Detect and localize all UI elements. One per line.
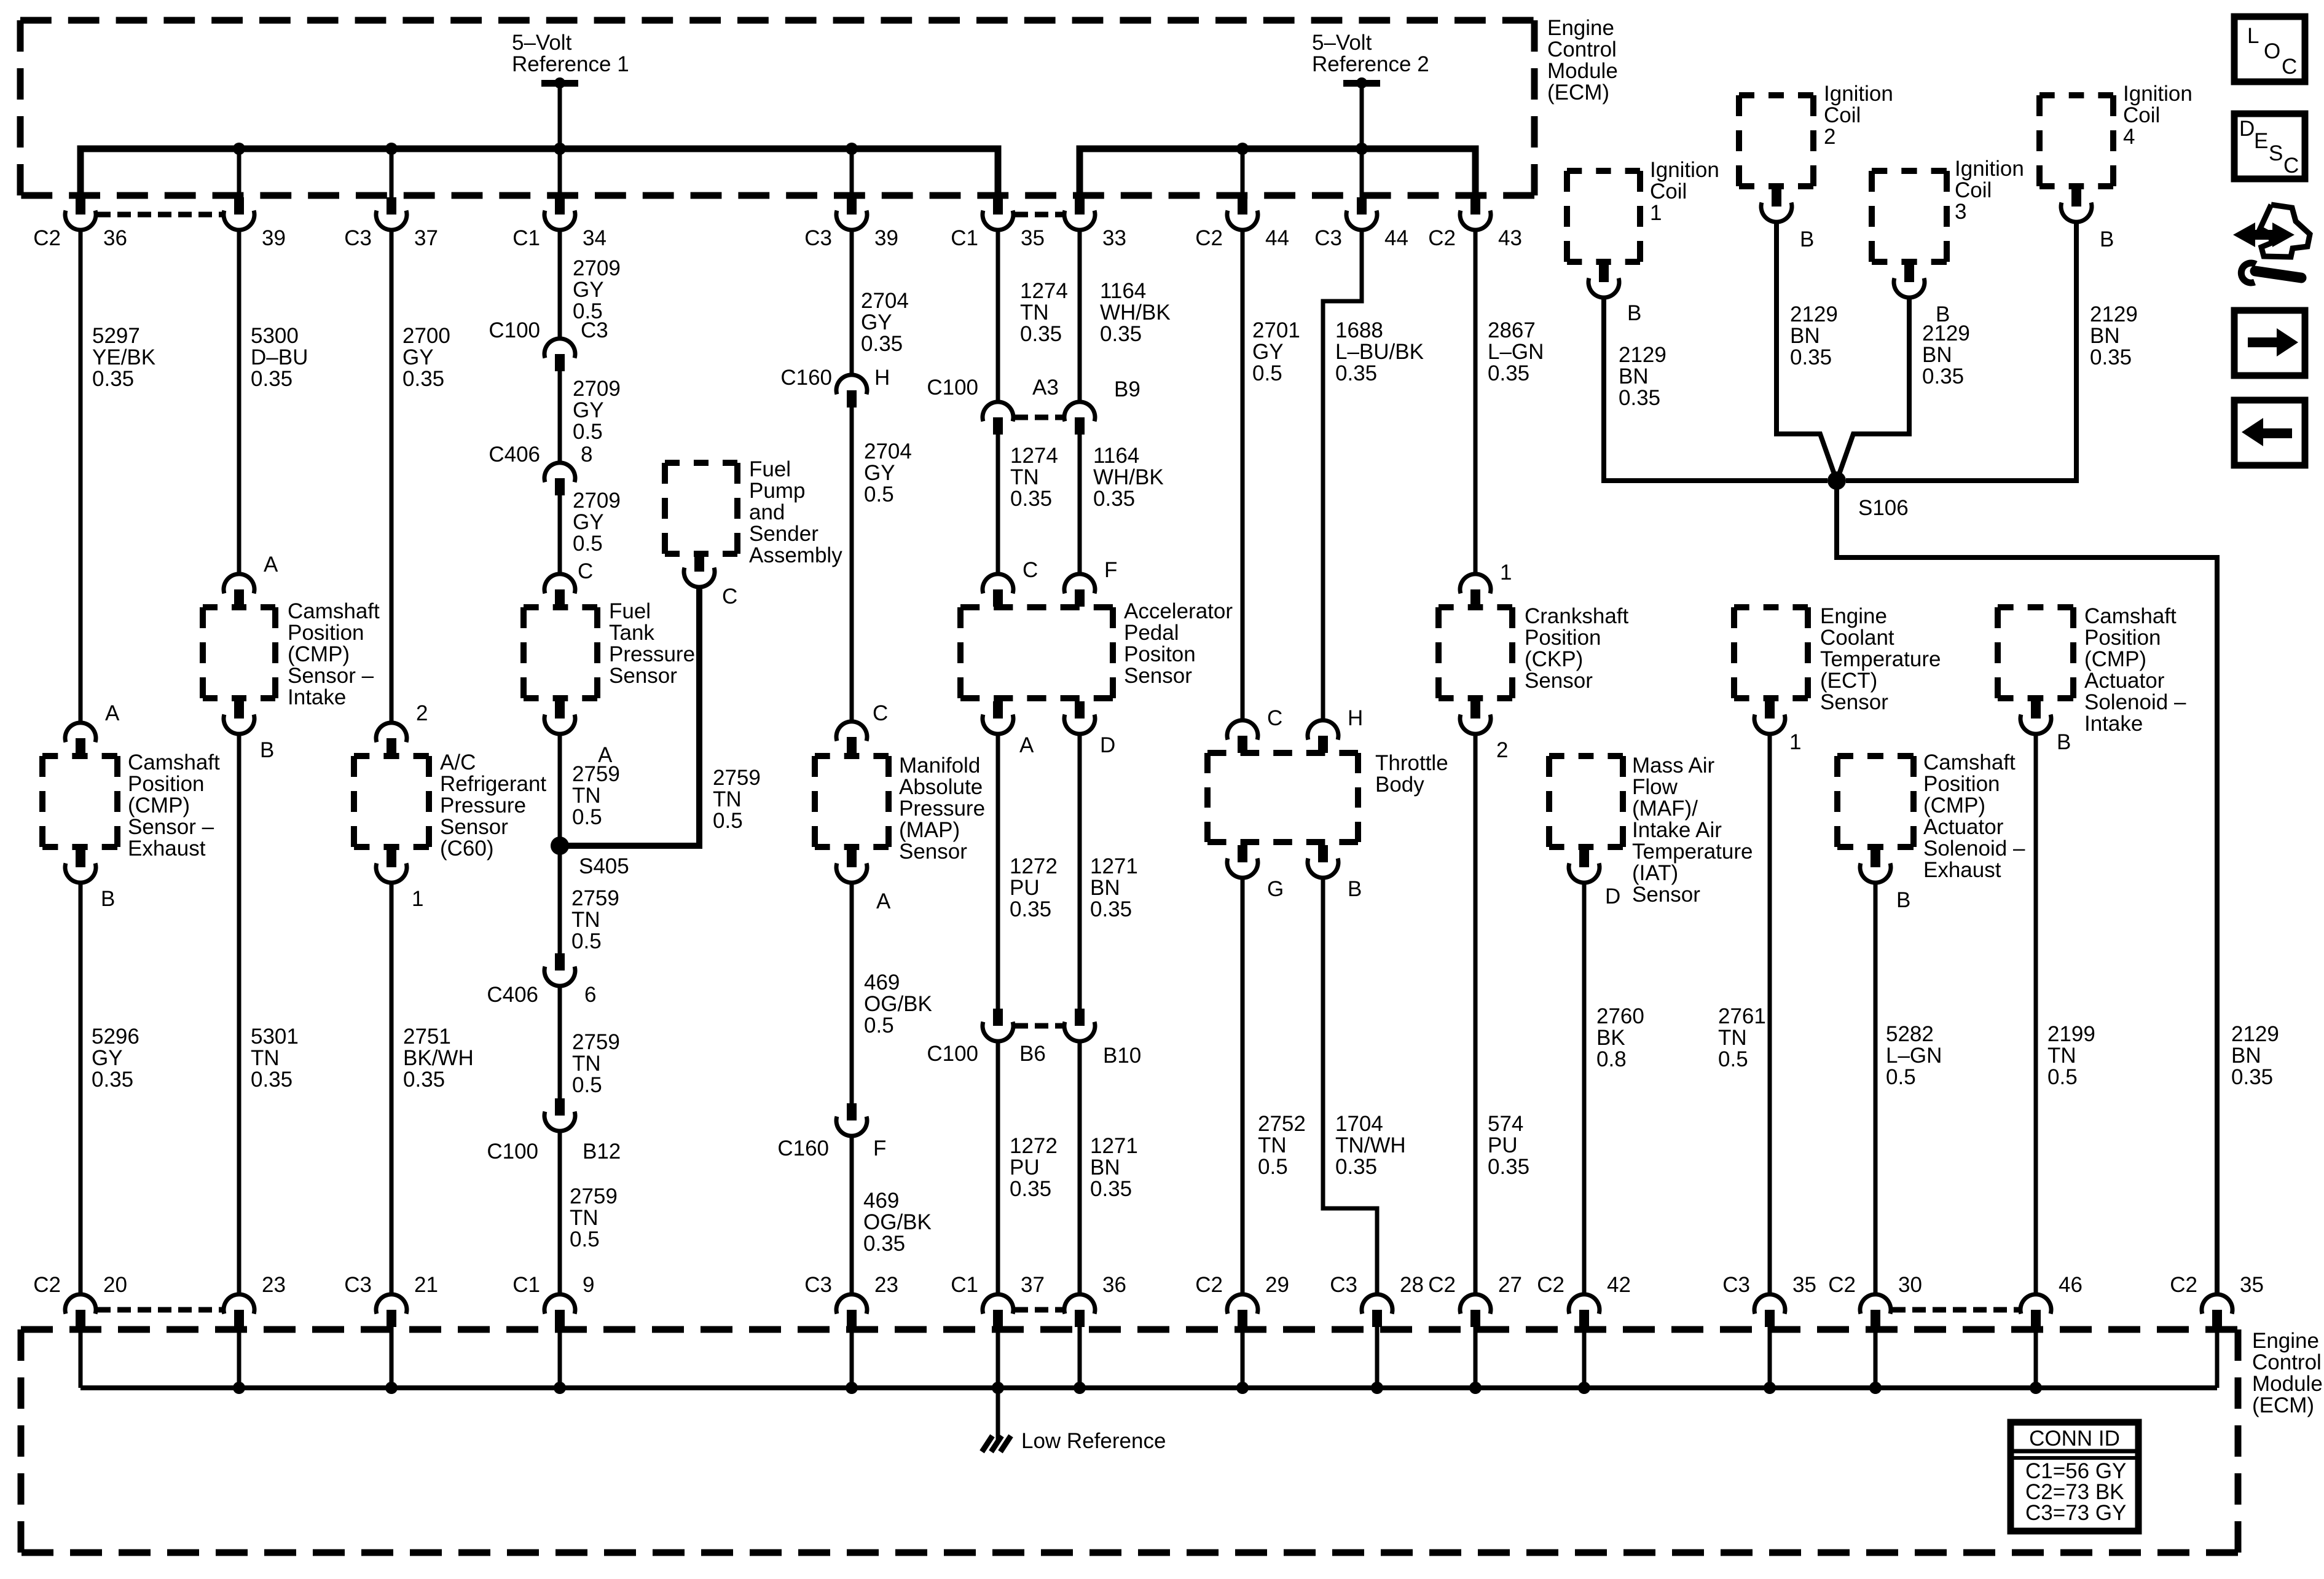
wrench and part locator icon [2233, 205, 2310, 283]
svg-text:D: D [1605, 884, 1620, 908]
wire 469 OG/BK segment MAP to C160-F [850, 883, 854, 1103]
forward arrow sidebar box [2234, 310, 2305, 376]
svg-text:9: 9 [583, 1273, 594, 1297]
connector C100 pin B10 inline [1064, 1009, 1141, 1068]
svg-text:2760: 2760 [1596, 1004, 1644, 1028]
connector D of accelerator pedal position sensor [1064, 701, 1115, 757]
Fuel Tank Pressure Sensor box [524, 607, 597, 698]
svg-text:0.35: 0.35 [1488, 361, 1529, 385]
wire 2129 BN coil 4 to S106 [1846, 222, 2076, 481]
Camshaft Position CMP Actuator Solenoid Exhaust box [1837, 756, 1914, 847]
label wire 2129 BN 0.35 (coil 2) [1790, 302, 1838, 369]
svg-text:C2: C2 [33, 1273, 61, 1297]
svg-text:C: C [1267, 706, 1282, 730]
svg-text:(CMP): (CMP) [2084, 647, 2146, 671]
label wire 2709 GY 0.5 (middle) [573, 377, 621, 444]
svg-text:2752: 2752 [1258, 1112, 1306, 1136]
Ignition Coil 1 box [1567, 171, 1640, 262]
svg-text:5282: 5282 [1886, 1022, 1934, 1046]
node 5-Volt Reference 1 label [512, 31, 629, 76]
label Engine Control Module (ECM) top [1547, 16, 1618, 104]
svg-text:(CMP): (CMP) [1923, 793, 1985, 817]
svg-text:5–Volt: 5–Volt [1312, 31, 1372, 55]
svg-text:B: B [2100, 227, 2114, 251]
label wire 1274 TN 0.35 (lower) [1010, 444, 1058, 511]
svg-text:D–BU: D–BU [251, 345, 308, 369]
label wire 2759 TN 0.5 (below C406) [572, 1030, 620, 1097]
svg-text:A3: A3 [1032, 376, 1059, 400]
ECM top connector pin 37 (C3) [344, 197, 438, 250]
svg-text:E: E [2254, 129, 2268, 153]
svg-text:Control: Control [2252, 1350, 2322, 1374]
5-Volt Reference 2 T-bar and stem wire [1343, 77, 1380, 149]
label wire 2867 L-GN 0.35 [1488, 318, 1544, 385]
svg-text:36: 36 [103, 226, 127, 250]
ECM bottom connector pin 36 [1064, 1273, 1126, 1327]
dotted connector link pins 35-33 [1015, 212, 1063, 218]
label wire 5301 TN 0.35 [251, 1025, 299, 1092]
svg-text:GY: GY [1252, 340, 1284, 364]
svg-text:PU: PU [1488, 1133, 1518, 1157]
junction dots on low reference bus [233, 1382, 2042, 1394]
ground wire stub for low reference [996, 1388, 1000, 1441]
svg-text:2129: 2129 [1922, 321, 1970, 345]
Camshaft Position CMP Sensor Exhaust box [42, 756, 117, 847]
connector C of accelerator pedal position sensor [983, 558, 1038, 607]
svg-text:Assembly: Assembly [749, 543, 842, 567]
svg-text:Exhaust: Exhaust [1923, 858, 2001, 882]
svg-text:C160: C160 [777, 1136, 829, 1160]
wire 5297 YE/BK segment [79, 230, 83, 723]
svg-text:TN: TN [570, 1206, 599, 1230]
svg-text:0.35: 0.35 [1093, 487, 1135, 511]
svg-text:Flow: Flow [1632, 775, 1678, 799]
ECM bottom connector pin 46 [2020, 1273, 2083, 1327]
label wire 2751 BK/WH 0.35 [403, 1025, 474, 1092]
svg-text:S405: S405 [579, 854, 629, 878]
svg-text:1: 1 [1650, 201, 1662, 225]
svg-text:0.5: 0.5 [864, 1014, 894, 1038]
svg-text:Coil: Coil [1650, 179, 1687, 203]
low reference bus wire [80, 1385, 2217, 1390]
svg-text:C3: C3 [1722, 1273, 1750, 1297]
svg-text:0.35: 0.35 [863, 1232, 905, 1256]
connector 2 of crankshaft position sensor [1460, 701, 1508, 762]
svg-text:Fuel: Fuel [609, 599, 651, 623]
svg-text:Sensor: Sensor [609, 664, 677, 688]
svg-text:Sensor –: Sensor – [128, 815, 214, 839]
svg-text:35: 35 [1021, 226, 1045, 250]
svg-text:GY: GY [402, 345, 434, 369]
svg-text:C1: C1 [512, 226, 540, 250]
svg-text:PU: PU [1010, 1156, 1040, 1179]
svg-text:8: 8 [581, 443, 592, 467]
label Mass Air Flow (MAF)/Intake Air Temperature (IAT) Sensor [1632, 754, 1753, 907]
ECM top connector pin 35 (C1) [951, 197, 1045, 250]
svg-text:GY: GY [864, 461, 895, 485]
svg-text:Coil: Coil [1955, 178, 1992, 202]
svg-text:0.35: 0.35 [2231, 1065, 2273, 1089]
dotted connector link pins 36-39 [97, 212, 222, 218]
svg-text:B: B [1627, 301, 1641, 325]
Camshaft Position CMP Actuator Solenoid Intake box [1998, 607, 2073, 698]
svg-text:2761: 2761 [1718, 1004, 1766, 1028]
svg-text:Pressure: Pressure [899, 797, 985, 821]
svg-text:C1: C1 [951, 1273, 978, 1297]
svg-text:2759: 2759 [572, 762, 620, 786]
svg-text:Crankshaft: Crankshaft [1525, 604, 1629, 628]
connector A of accelerator pedal position sensor [983, 701, 1034, 757]
wire 5296 GY segment [79, 883, 83, 1294]
wire 2759 TN segment C100 to ECM pin 9 [558, 1131, 562, 1294]
svg-text:(ECT): (ECT) [1820, 669, 1877, 693]
connector 1 of A/C refrigerant pressure sensor [376, 850, 423, 911]
svg-text:B9: B9 [1114, 377, 1140, 401]
wire 5300 D-BU segment [237, 230, 241, 574]
svg-text:Position: Position [1525, 626, 1601, 650]
wire 2709 GY segment C406 to fuel tank pressure sensor [558, 495, 562, 574]
5-volt reference bus 1 wire [80, 149, 998, 195]
svg-text:Sensor: Sensor [440, 815, 508, 839]
svg-text:0.35: 0.35 [1335, 1155, 1377, 1179]
label wire 1164 WH/BK 0.35 (lower) [1093, 444, 1164, 511]
connector F of accelerator pedal position sensor [1064, 558, 1117, 607]
label wire 2759 TN 0.5 (above S405) [572, 762, 620, 829]
wire 1271 BN segment APP to C100-B10 [1078, 734, 1082, 1009]
svg-text:0.5: 0.5 [573, 420, 603, 444]
svg-text:C3: C3 [804, 1273, 832, 1297]
label Accelerator Pedal Positon Sensor [1124, 599, 1233, 688]
svg-text:0.35: 0.35 [92, 1068, 133, 1092]
svg-text:0.5: 0.5 [2047, 1065, 2078, 1089]
svg-text:5301: 5301 [251, 1025, 299, 1049]
svg-text:1: 1 [1789, 730, 1801, 754]
svg-text:469: 469 [863, 1189, 899, 1213]
svg-text:37: 37 [1021, 1273, 1045, 1297]
svg-text:36: 36 [1102, 1273, 1126, 1297]
svg-text:A: A [1019, 733, 1034, 757]
svg-text:Sensor: Sensor [1525, 669, 1593, 693]
svg-text:GY: GY [573, 510, 604, 534]
wire 2199 TN segment to ECM pin 46 [2034, 734, 2038, 1294]
svg-text:0.8: 0.8 [1596, 1047, 1627, 1071]
connector C of MAP sensor [836, 701, 888, 754]
label wire 2760 BK 0.8 [1596, 1004, 1644, 1071]
label wire 1272 PU 0.35 (upper) [1010, 854, 1058, 921]
svg-text:37: 37 [414, 226, 438, 250]
svg-text:5300: 5300 [251, 324, 299, 348]
svg-text:Module: Module [2252, 1372, 2323, 1396]
label wire 5300 D-BU 0.35 [251, 324, 308, 391]
svg-text:27: 27 [1498, 1273, 1522, 1297]
connector C of throttle body [1227, 706, 1282, 753]
svg-text:H: H [1348, 706, 1363, 730]
svg-text:Sender: Sender [749, 522, 819, 546]
CONN ID table [2011, 1422, 2138, 1531]
svg-text:0.35: 0.35 [92, 367, 134, 391]
svg-text:0.35: 0.35 [1090, 897, 1132, 921]
svg-text:Accelerator: Accelerator [1124, 599, 1233, 623]
svg-text:Pump: Pump [749, 479, 805, 503]
ECM top connector pin 33 [1064, 197, 1126, 250]
svg-text:Coil: Coil [2123, 103, 2160, 127]
svg-text:1274: 1274 [1010, 444, 1058, 468]
svg-text:0.35: 0.35 [1488, 1155, 1529, 1179]
svg-text:GY: GY [861, 310, 892, 334]
svg-text:G: G [1267, 877, 1284, 901]
splice S405 junction [551, 837, 629, 878]
connector 1 of ECT sensor [1754, 701, 1801, 754]
ECM top connector pin 36 (C2) [33, 197, 127, 250]
svg-text:44: 44 [1384, 226, 1408, 250]
Ignition Coil 3 box [1872, 171, 1947, 262]
label wire 2759 TN 0.5 (fuel pump branch) [713, 766, 761, 833]
dotted connector link B6-B10 [1015, 1023, 1063, 1029]
svg-text:33: 33 [1102, 226, 1126, 250]
connector B of CMP sensor intake [224, 701, 274, 762]
svg-text:C100: C100 [927, 376, 978, 400]
label wire 2700 GY 0.35 [402, 324, 450, 391]
svg-text:TN: TN [713, 787, 742, 811]
svg-text:C: C [2283, 154, 2299, 178]
svg-text:L–GN: L–GN [1488, 340, 1544, 364]
svg-text:23: 23 [874, 1273, 898, 1297]
svg-text:0.5: 0.5 [573, 532, 603, 556]
svg-text:C3: C3 [804, 226, 832, 250]
ECM bottom connector pin 35 (C3) [1722, 1273, 1816, 1327]
svg-text:2700: 2700 [402, 324, 450, 348]
connector C160 pin F inline [777, 1103, 886, 1160]
ECM bottom connector pin 37 (C1) [951, 1273, 1045, 1327]
svg-text:23: 23 [262, 1273, 286, 1297]
svg-text:GY: GY [92, 1046, 123, 1070]
svg-text:C100: C100 [489, 318, 540, 342]
svg-text:C406: C406 [487, 983, 538, 1007]
label A/C Refrigerant Pressure Sensor (C60) [440, 750, 546, 860]
5-volt reference bus 2 wire [1080, 149, 1475, 195]
svg-text:BN: BN [1922, 343, 1952, 367]
svg-text:Position: Position [288, 621, 364, 645]
label wire 2752 TN 0.5 [1258, 1112, 1306, 1179]
Engine Coolant Temperature ECT Sensor box [1734, 607, 1808, 698]
svg-text:0.5: 0.5 [572, 805, 602, 829]
svg-text:B: B [1896, 888, 1910, 912]
svg-text:F: F [873, 1136, 886, 1160]
svg-text:2751: 2751 [403, 1025, 451, 1049]
svg-text:Ignition: Ignition [2123, 82, 2192, 106]
connector B of CMP actuator solenoid intake [2020, 701, 2071, 754]
svg-text:OG/BK: OG/BK [864, 992, 932, 1016]
svg-text:B: B [1348, 877, 1362, 901]
svg-text:C2: C2 [1828, 1273, 1856, 1297]
svg-text:C: C [722, 585, 737, 608]
wire 2709 GY segment ECM-34 to C100 [558, 230, 562, 339]
svg-text:1704: 1704 [1335, 1112, 1383, 1136]
label wire 2199 TN 0.5 [2047, 1022, 2095, 1089]
svg-text:2129: 2129 [2090, 302, 2138, 326]
svg-text:2129: 2129 [1790, 302, 1838, 326]
wire 574 PU segment CKP to ECM pin 27 [1474, 734, 1478, 1294]
svg-text:D: D [2239, 117, 2255, 141]
Throttle Body box [1207, 753, 1358, 842]
svg-text:C406: C406 [489, 443, 540, 467]
label Throttle Body [1375, 751, 1448, 797]
ECM bottom connector pin 20 (C2) [33, 1273, 127, 1327]
svg-text:2867: 2867 [1488, 318, 1536, 342]
svg-text:TN: TN [572, 784, 601, 808]
svg-text:C2: C2 [1428, 226, 1456, 250]
svg-text:and: and [749, 500, 785, 524]
connector B of ignition coil 1 [1588, 265, 1641, 325]
svg-text:Body: Body [1375, 773, 1424, 797]
svg-text:Pressure: Pressure [440, 793, 526, 817]
svg-text:1: 1 [1500, 561, 1512, 585]
svg-text:6: 6 [584, 983, 596, 1007]
svg-text:0.35: 0.35 [1619, 386, 1660, 410]
connector A of fuel tank pressure sensor [544, 701, 613, 767]
connector 1 of crankshaft position sensor [1460, 561, 1512, 607]
connector B of ignition coil 2 [1761, 189, 1814, 251]
svg-text:C2: C2 [2170, 1273, 2197, 1297]
connector B of ignition coil 4 [2061, 189, 2114, 251]
wire stubs ECM edge to low reference bus [80, 1327, 2217, 1388]
connector C100 pin B9 inline [1064, 377, 1140, 435]
svg-text:28: 28 [1400, 1273, 1424, 1297]
svg-text:Camshaft: Camshaft [1923, 750, 2016, 774]
svg-text:1272: 1272 [1010, 854, 1058, 878]
junction dots on bus 1 [233, 143, 858, 155]
svg-text:B12: B12 [583, 1140, 621, 1164]
svg-text:2759: 2759 [571, 886, 619, 910]
connector C406 pin 6 inline [487, 953, 596, 1007]
label wire 2129 BN 0.35 (coil 4) [2090, 302, 2138, 369]
svg-text:(CMP): (CMP) [288, 642, 350, 666]
svg-text:TN: TN [572, 1052, 601, 1076]
wire 2704 GY segment ECM-39 to C160 [850, 230, 854, 375]
label Fuel Tank Pressure Sensor [609, 599, 695, 688]
svg-text:(MAF)/: (MAF)/ [1632, 797, 1698, 821]
svg-text:1272: 1272 [1010, 1134, 1058, 1158]
svg-text:D: D [1100, 733, 1115, 757]
label wire 1688 L-BU/BK 0.35 [1335, 318, 1424, 385]
svg-text:Exhaust: Exhaust [128, 837, 206, 860]
svg-text:BN: BN [1619, 364, 1649, 388]
svg-text:469: 469 [864, 971, 900, 994]
svg-text:0.35: 0.35 [1010, 487, 1052, 511]
svg-text:2704: 2704 [864, 439, 912, 463]
svg-text:CONN ID: CONN ID [2029, 1427, 2120, 1451]
node 5-Volt Reference 2 label [1312, 31, 1429, 76]
wire 1271 BN segment C100 to ECM pin 36 [1078, 1041, 1082, 1294]
svg-text:B: B [101, 887, 115, 911]
ECM bottom connector pin 29 (C2) [1195, 1273, 1289, 1327]
svg-text:2701: 2701 [1252, 318, 1300, 342]
svg-text:BN: BN [1790, 324, 1820, 348]
dotted connector link A3-B9 [1015, 415, 1063, 420]
svg-text:(MAP): (MAP) [899, 818, 960, 842]
svg-text:Sensor –: Sensor – [288, 664, 374, 688]
svg-text:0.35: 0.35 [2090, 345, 2132, 369]
svg-text:30: 30 [1898, 1273, 1922, 1297]
svg-text:Reference 1: Reference 1 [512, 52, 629, 76]
Accelerator Pedal Position Sensor box [960, 607, 1113, 698]
ECM top connector pin 39 (C3) [804, 197, 898, 250]
Manifold Absolute Pressure MAP Sensor box [815, 756, 889, 847]
label wire 2129 BN 0.35 (coil 3) [1922, 321, 1970, 388]
label wire 5297 YE/BK 0.35 [92, 324, 155, 391]
connector A of MAP sensor [836, 850, 891, 913]
svg-text:C1: C1 [951, 226, 978, 250]
svg-text:39: 39 [262, 226, 286, 250]
svg-text:TN: TN [1718, 1026, 1747, 1050]
svg-text:34: 34 [583, 226, 607, 250]
svg-text:3: 3 [1955, 200, 1966, 224]
svg-text:C: C [1023, 558, 1038, 582]
label Ignition Coil 3 [1955, 157, 2024, 224]
connector B of throttle body [1308, 845, 1362, 901]
connector A of CMP sensor exhaust [65, 701, 120, 755]
svg-text:Intake: Intake [288, 685, 346, 709]
ECM bottom connector pin 28 (C3) [1330, 1273, 1424, 1327]
label wire 1704 TN/WH 0.35 [1335, 1112, 1406, 1179]
svg-text:L: L [2247, 24, 2259, 48]
svg-text:5297: 5297 [92, 324, 140, 348]
connector C160 pin H inline [780, 366, 890, 408]
svg-text:Solenoid –: Solenoid – [2084, 690, 2186, 714]
svg-text:Ignition: Ignition [1824, 82, 1893, 106]
svg-text:Actuator: Actuator [1923, 815, 2004, 839]
svg-text:TN: TN [571, 908, 600, 932]
wire 1272 PU segment C100 to ECM pin 37 [996, 1041, 1000, 1294]
connector B of ignition coil 3 [1894, 265, 1950, 326]
svg-text:TN: TN [2047, 1044, 2076, 1068]
label wire 1272 PU 0.35 (lower) [1010, 1134, 1058, 1201]
svg-text:Ignition: Ignition [1650, 158, 1719, 182]
svg-text:Tank: Tank [609, 621, 654, 645]
wire 1164 WH/BK segment C100 to APP sensor [1078, 435, 1082, 574]
connector 2 of A/C refrigerant pressure sensor [376, 701, 428, 755]
svg-text:Sensor: Sensor [1632, 883, 1700, 907]
Ignition Coil 4 box [2039, 95, 2113, 186]
svg-text:2759: 2759 [570, 1184, 618, 1208]
svg-text:WH/BK: WH/BK [1093, 465, 1164, 489]
label Manifold Absolute Pressure (MAP) Sensor [899, 754, 985, 864]
label Engine Coolant Temperature (ECT) Sensor [1820, 604, 1941, 714]
ECM top connector pin 34 (C1) [512, 197, 607, 250]
svg-text:C2: C2 [1195, 226, 1223, 250]
svg-text:TN: TN [251, 1046, 280, 1070]
svg-text:2709: 2709 [573, 489, 621, 513]
connector B of CMP sensor exhaust [65, 850, 115, 911]
dotted connector link pins 37-36 [1015, 1307, 1063, 1313]
svg-text:Position: Position [2084, 626, 2161, 650]
svg-text:Position: Position [128, 772, 205, 796]
svg-text:BN: BN [2231, 1044, 2261, 1068]
Crankshaft Position CKP Sensor box [1439, 607, 1512, 698]
label wire 1164 WH/BK 0.35 (upper) [1100, 279, 1171, 346]
connector C406 pin 8 inline [489, 443, 592, 495]
svg-text:Reference 2: Reference 2 [1312, 52, 1429, 76]
svg-text:0.35: 0.35 [1335, 361, 1377, 385]
svg-text:C: C [2282, 55, 2297, 79]
wire 2867 L-GN segment ECM-43 to CKP sensor [1474, 230, 1478, 574]
svg-text:1274: 1274 [1020, 279, 1068, 303]
wire 1164 WH/BK segment ECM-33 to C100-B9 [1078, 230, 1082, 402]
label wire 5296 GY 0.35 [92, 1025, 139, 1092]
svg-text:Refrigerant: Refrigerant [440, 772, 546, 796]
svg-text:0.35: 0.35 [1010, 897, 1051, 921]
label wire 2129 BN 0.35 (right) [2231, 1022, 2279, 1089]
